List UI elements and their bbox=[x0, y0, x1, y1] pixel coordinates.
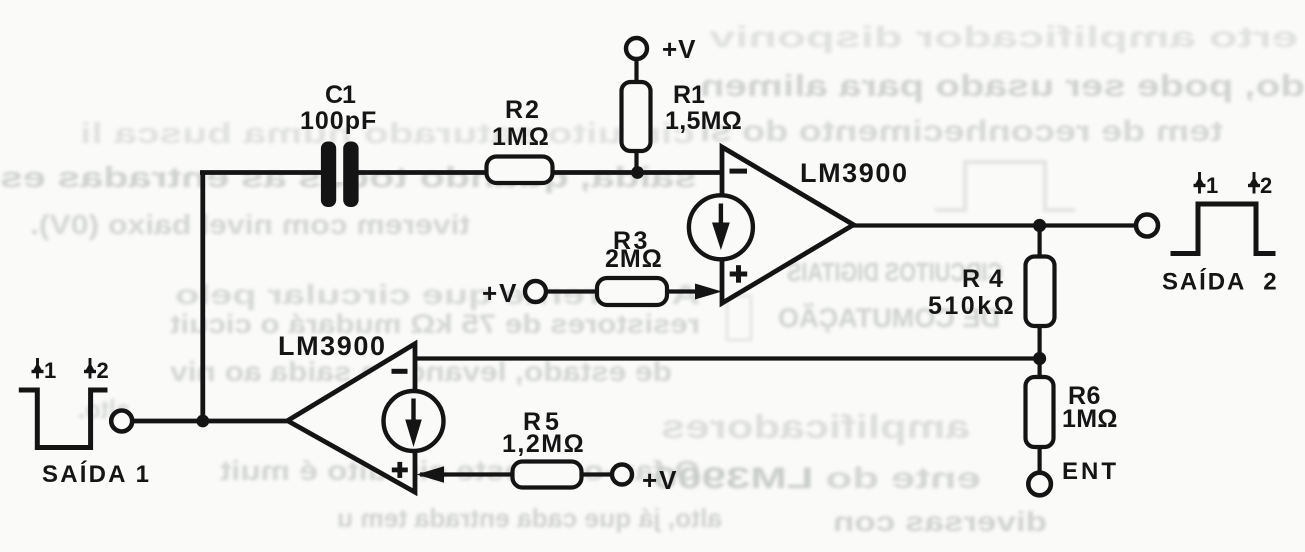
svg-text:+V: +V bbox=[482, 278, 519, 308]
junction node below R1 bbox=[631, 166, 644, 179]
svg-text:510kΩ: 510kΩ bbox=[928, 292, 1016, 320]
svg-text:R4: R4 bbox=[962, 265, 1012, 293]
svg-text:erto amplificador disponiv: erto amplificador disponiv bbox=[709, 21, 1298, 54]
svg-text:1MΩ: 1MΩ bbox=[1062, 405, 1118, 433]
svg-text:SAÍDA 1: SAÍDA 1 bbox=[42, 460, 151, 488]
svg-text:ENT: ENT bbox=[1062, 458, 1119, 485]
svg-text:1: 1 bbox=[44, 358, 56, 383]
saida2 t2 mark bbox=[1248, 172, 1260, 194]
svg-text:LM3900: LM3900 bbox=[800, 158, 909, 188]
svg-text:diversas con: diversas con bbox=[833, 506, 1047, 537]
svg-text:de estado, levando a saida ao: de estado, levando a saida ao niv bbox=[170, 356, 672, 387]
saida2 t1 mark bbox=[1194, 172, 1206, 194]
svg-text:+V: +V bbox=[642, 465, 679, 495]
U2 plus sign bbox=[392, 462, 408, 478]
resistor R5 bbox=[513, 462, 582, 488]
junction node left vertical/saida1 bbox=[196, 415, 209, 428]
op-amp U2 LM3900 (bottom, pointing left) bbox=[288, 344, 416, 493]
svg-text:tem de reconhecimento do si: tem de reconhecimento do si bbox=[700, 115, 1223, 148]
svg-text:1,2MΩ: 1,2MΩ bbox=[502, 430, 585, 458]
arrow into U2 + input bbox=[417, 466, 445, 483]
svg-text:1: 1 bbox=[1206, 173, 1218, 198]
wire R5 +V branch bbox=[420, 472, 622, 476]
svg-text:1MΩ: 1MΩ bbox=[492, 123, 550, 151]
capacitor C1 bbox=[321, 142, 359, 208]
resistor R4 bbox=[1026, 257, 1055, 327]
wire R1 vertical branch bbox=[634, 57, 638, 173]
wire U1 output to saida2 terminal bbox=[853, 223, 1147, 227]
svg-text:circuito saturado numa busca l: circuito saturado numa busca li bbox=[80, 118, 695, 150]
resistor R6 bbox=[1026, 377, 1054, 447]
+V terminal of R1 bbox=[626, 38, 647, 59]
ENT terminal bbox=[1028, 473, 1051, 496]
svg-text:1,5MΩ: 1,5MΩ bbox=[665, 107, 742, 135]
waveform saida 1 (negative pulse) bbox=[19, 390, 108, 448]
svg-text:2: 2 bbox=[97, 358, 109, 383]
op-amp U1 LM3900 (top) bbox=[722, 147, 854, 303]
wire R3 +V branch bbox=[536, 289, 700, 293]
svg-text:+V: +V bbox=[662, 34, 697, 64]
svg-text:R2: R2 bbox=[505, 96, 541, 124]
wire top horizontal (node A: C1/R2/R1 junction to U1 inverting input) bbox=[200, 170, 722, 175]
svg-text:R1: R1 bbox=[673, 81, 705, 109]
U1 current source bbox=[689, 195, 753, 259]
resistor R3 bbox=[597, 278, 667, 305]
wire saida1 horizontal bbox=[122, 419, 288, 424]
svg-text:LM3900: LM3900 bbox=[278, 331, 387, 361]
svg-text:do, pode ser usado para alimen: do, pode ser usado para alimen bbox=[700, 68, 1305, 103]
wire long feedback middle bbox=[415, 356, 1040, 360]
saida1 t1 mark bbox=[32, 358, 44, 379]
faint pulse figure bleed bbox=[935, 162, 1075, 210]
+V terminal of R5 bbox=[612, 465, 632, 485]
svg-text:tiverem com nivel baixo (0V).: tiverem com nivel baixo (0V). bbox=[30, 209, 470, 240]
resistor R1 bbox=[622, 82, 651, 151]
svg-text:resistores de 75 kΩ mudará o c: resistores de 75 kΩ mudará o cicuit bbox=[170, 309, 700, 339]
svg-text:SAÍDA 2: SAÍDA 2 bbox=[1162, 268, 1279, 296]
U1 plus sign bbox=[730, 265, 748, 283]
saida2 terminal bbox=[1136, 215, 1158, 237]
svg-text:alto, já que cada entrada tem: alto, já que cada entrada tem u bbox=[337, 503, 722, 533]
svg-text:100pF: 100pF bbox=[300, 107, 377, 135]
arrow into U1 + input bbox=[695, 284, 722, 300]
wire R4 R6 vertical bbox=[1037, 226, 1041, 485]
svg-text:amplificadores: amplificadores bbox=[661, 408, 970, 445]
svg-text:2MΩ: 2MΩ bbox=[605, 245, 663, 273]
svg-text:C1: C1 bbox=[325, 81, 356, 109]
wire left vertical bbox=[200, 173, 205, 422]
junction node output U1 bbox=[1033, 219, 1046, 232]
saida1 t2 mark bbox=[84, 358, 96, 379]
svg-text:ente do LM3900: ente do LM3900 bbox=[653, 462, 981, 495]
U2 minus sign bbox=[392, 369, 408, 374]
svg-text:2: 2 bbox=[1260, 173, 1272, 198]
resistor R2 bbox=[487, 157, 553, 184]
+V terminal of R3 bbox=[525, 281, 546, 302]
U2 current source bbox=[384, 391, 444, 451]
saida1 terminal bbox=[111, 411, 132, 432]
junction node R4/R6 bbox=[1033, 352, 1046, 365]
U1 minus sign bbox=[730, 169, 748, 174]
waveform saida 2 (positive pulse) bbox=[1171, 204, 1276, 254]
